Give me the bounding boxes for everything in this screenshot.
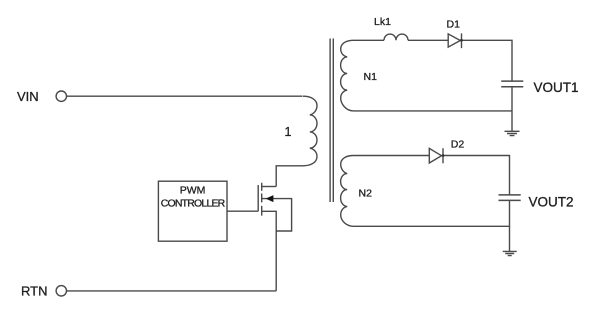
diode D1 — [448, 33, 461, 48]
primary winding 1 — [276, 96, 317, 186]
wire body loop — [262, 199, 292, 231]
svg-text:D1: D1 — [447, 18, 461, 30]
wire C2 to ground — [509, 200, 511, 251]
wire VIN to primary top — [67, 95, 303, 97]
ground 2 — [503, 251, 517, 255]
svg-text:N1: N1 — [364, 71, 378, 83]
transformer core — [330, 39, 333, 203]
wire gate — [227, 210, 258, 212]
secondary winding N1 — [341, 40, 512, 111]
terminal VIN — [56, 91, 66, 101]
capacitor C2 — [499, 195, 521, 201]
wire source down to RTN — [262, 211, 277, 291]
svg-text:Lk1: Lk1 — [374, 16, 391, 28]
secondary winding N2 — [341, 156, 510, 227]
transistor Q1 channel segments — [261, 183, 263, 216]
wire Lk1 to D1 — [408, 39, 448, 41]
wire RTN — [67, 290, 277, 292]
junction dot D2 — [442, 154, 445, 157]
wire D2 to corner and down — [443, 156, 510, 195]
ground 1 — [505, 131, 520, 135]
svg-text:VOUT2: VOUT2 — [529, 195, 574, 210]
svg-text:D2: D2 — [451, 138, 465, 150]
svg-text:CONTROLLER: CONTROLLER — [161, 198, 226, 210]
terminal RTN — [56, 286, 66, 296]
diode D2 — [429, 148, 443, 163]
svg-text:N2: N2 — [359, 187, 373, 199]
transistor Q1 gate bar — [257, 185, 259, 211]
svg-text:VOUT1: VOUT1 — [534, 80, 579, 95]
wire drain — [262, 186, 277, 188]
inductor Lk1 — [384, 34, 408, 40]
capacitor C1 — [501, 81, 523, 87]
svg-text:1: 1 — [285, 125, 292, 139]
transistor Q1 body arrow — [266, 195, 274, 202]
wire D1 to corner and down — [462, 40, 513, 81]
wire C1 to ground — [511, 87, 513, 132]
svg-text:RTN: RTN — [21, 284, 47, 299]
svg-text:VIN: VIN — [17, 89, 39, 104]
svg-text:PWM: PWM — [180, 184, 206, 196]
PWM controller box U1 — [158, 181, 227, 241]
junction dot D1 — [460, 39, 463, 42]
